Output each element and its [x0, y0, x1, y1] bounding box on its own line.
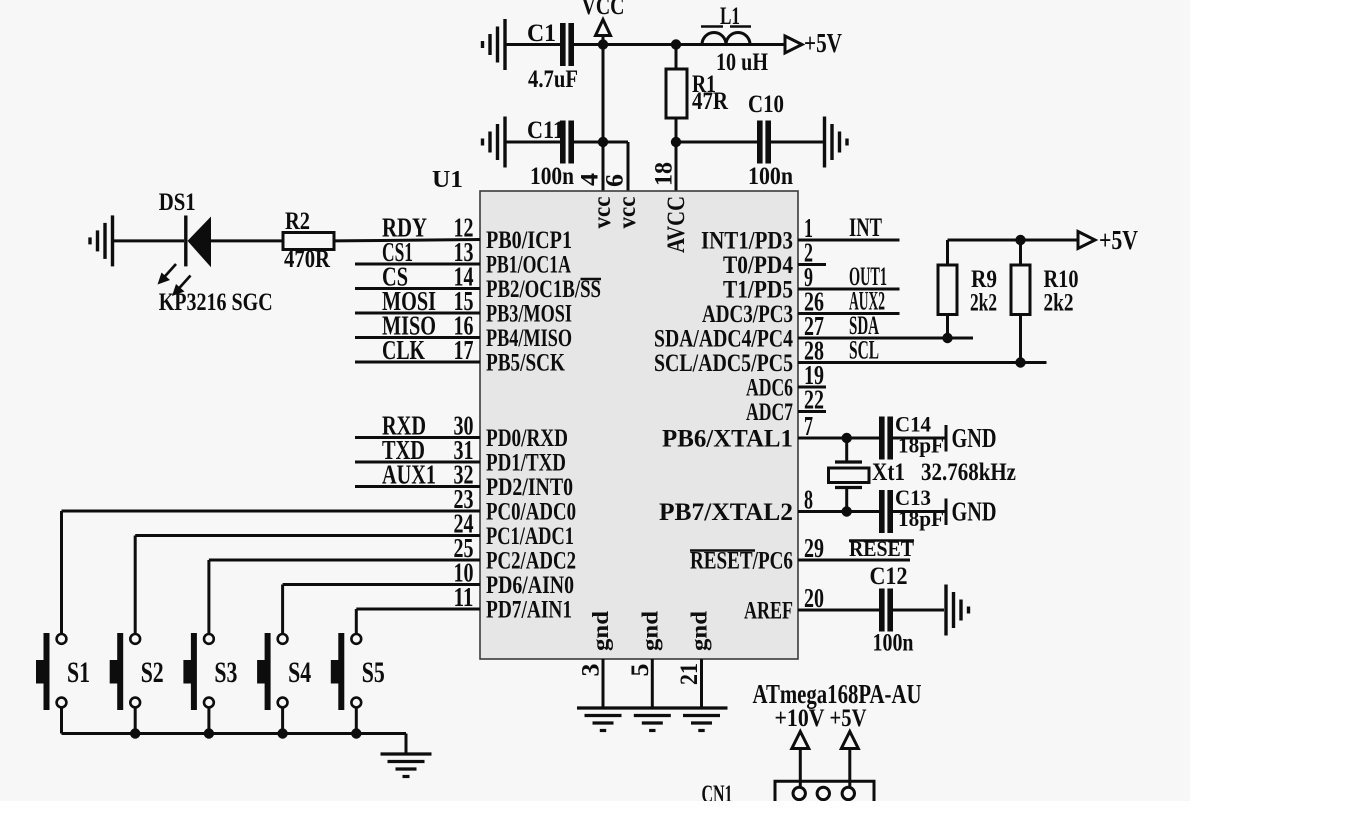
svg-text:PD2/INT0: PD2/INT0 [486, 474, 573, 501]
svg-text:100n: 100n [873, 630, 914, 657]
GND tick (C13) [945, 499, 948, 526]
wire DS1 to R2 [211, 239, 283, 242]
svg-text:5: 5 [627, 664, 654, 677]
svg-text:6: 6 [602, 174, 629, 187]
switch S1 [36, 511, 90, 734]
svg-text:PC2/ADC2: PC2/ADC2 [486, 548, 576, 575]
pin 30 PD0/RXD (left) [355, 411, 568, 453]
ground (C1 left) [483, 19, 506, 70]
svg-text:INT1/PD3: INT1/PD3 [701, 228, 793, 255]
capacitor C10 [757, 121, 771, 164]
inductor L1 [701, 3, 751, 45]
pin 24 PC1/ADC1 (left) [135, 509, 574, 551]
crystal Xt1 [829, 438, 870, 512]
svg-text:PC1/ADC1: PC1/ADC1 [486, 523, 574, 550]
svg-text:7: 7 [804, 411, 813, 441]
switch S3 [183, 560, 237, 734]
wire +10V to CN1 [799, 749, 802, 788]
svg-text:PD1/TXD: PD1/TXD [486, 450, 566, 477]
wire C14 to GND tick [893, 437, 946, 440]
switch S4 [257, 585, 311, 734]
pin 28 SCL/ADC5/PC5 (right) [654, 336, 1047, 378]
pin 14 PB2/OC1B/SS (left) [355, 262, 601, 304]
switch S5 [331, 609, 385, 734]
svg-text:10 uH: 10 uH [716, 49, 768, 76]
connector CN1 [775, 781, 874, 817]
resistor R9 [938, 240, 997, 338]
svg-text:S2: S2 [141, 656, 164, 689]
pin 1 INT1/PD3 (right) [701, 213, 900, 255]
svg-text:PB1/OC1A: PB1/OC1A [486, 252, 571, 279]
svg-text:21: 21 [676, 663, 703, 685]
svg-text:ADC3/PC3: ADC3/PC3 [702, 301, 793, 328]
node junction XTAL2/C13 [842, 506, 852, 516]
wire ground to C11 [505, 141, 560, 144]
svg-text:C10: C10 [748, 91, 784, 118]
wire vcc vertical pin 6 [627, 142, 630, 191]
capacitor C1 [560, 23, 574, 66]
svg-text:vcc: vcc [614, 197, 641, 229]
svg-text:gnd: gnd [588, 611, 613, 651]
capacitor C11 [560, 121, 574, 164]
pin 3 gnd (bottom) [578, 611, 614, 708]
wire C1 to L1/+5V rail [573, 43, 785, 46]
ground (C10 right) [825, 117, 848, 168]
pin 32 PD2/INT0 (left) [355, 460, 573, 502]
svg-text:PB5/SCK: PB5/SCK [486, 350, 565, 377]
node junction bus/S [130, 728, 140, 738]
canvas clip (bitmap edge) [0, 801, 1366, 817]
pin 6 vcc (top) [602, 174, 642, 229]
svg-text:C11: C11 [527, 117, 564, 144]
svg-text:GND: GND [952, 423, 997, 453]
capacitor C12 [879, 589, 893, 632]
wire C13 to GND tick [893, 510, 946, 513]
resistor R10 [1011, 240, 1079, 363]
node junction AVCC branch [671, 39, 681, 49]
pin 17 PB5/SCK (left) [355, 335, 565, 377]
svg-text:11: 11 [454, 582, 474, 612]
svg-text:S4: S4 [288, 656, 311, 689]
svg-text:100n: 100n [530, 163, 574, 190]
wire R2 to pin 12 [334, 240, 480, 241]
wire C11 to vcc pins [573, 141, 628, 144]
svg-text:47R: 47R [692, 88, 729, 115]
pin 2 T0/PD4 (right) [723, 238, 826, 280]
pin 18 AVCC (top) [651, 162, 691, 253]
svg-text:PB0/ICP1: PB0/ICP1 [486, 227, 572, 254]
LED DS1 [159, 189, 211, 267]
svg-text:17: 17 [454, 335, 474, 365]
node junction bus/S [351, 728, 361, 738]
pin 27 SDA/ADC4/PC4 (right) [654, 311, 973, 353]
svg-text:100n: 100n [748, 163, 793, 190]
pin 4 vcc (top) [577, 172, 617, 228]
power arrow +5V (right) [1078, 232, 1095, 249]
pin 5 gnd (bottom) [627, 611, 663, 708]
wire C12 to ground [893, 609, 944, 612]
svg-text:PD7/AIN1: PD7/AIN1 [486, 597, 572, 624]
svg-text:PB4/MISO: PB4/MISO [486, 325, 572, 352]
switch S2 [110, 536, 164, 734]
wire ground to DS1 [113, 239, 185, 242]
pin 12 PB0/ICP1 (left) [382, 213, 572, 255]
node junction bus/S [277, 728, 287, 738]
node junction SDA/R9 [942, 333, 952, 343]
pin 21 gnd (bottom) [676, 611, 712, 708]
power arrow +5V (CN1) [841, 732, 858, 749]
svg-text:CLK: CLK [382, 335, 425, 365]
svg-text:AVCC: AVCC [663, 196, 690, 253]
resistor R2 [283, 208, 334, 273]
LED arrows (emission) [158, 264, 191, 296]
pin 25 PC2/ADC2 (left) [209, 533, 576, 575]
power symbol VCC [582, 0, 625, 45]
node junction R10/+5V rail [1015, 235, 1025, 245]
GND tick (C14) [945, 425, 948, 452]
power arrow +10V [792, 732, 809, 749]
node junction VCC/pin4 [598, 39, 608, 49]
wire to C10 [676, 141, 757, 144]
svg-text:SCL/ADC5/PC5: SCL/ADC5/PC5 [654, 350, 793, 377]
IC U1 ATmega168PA body [480, 191, 798, 659]
pin 31 PD1/TXD (left) [355, 435, 566, 477]
svg-text:PD0/RXD: PD0/RXD [486, 425, 568, 452]
wire bus to ground [405, 734, 408, 755]
svg-text:KP3216 SGC: KP3216 SGC [159, 289, 273, 316]
svg-text:SDA/ADC4/PC4: SDA/ADC4/PC4 [654, 326, 793, 353]
svg-text:VCC: VCC [582, 0, 625, 20]
svg-text:S3: S3 [214, 656, 237, 689]
node junction AVCC/C10 [671, 137, 681, 147]
ground (switch bus) [381, 754, 432, 777]
wire C10 to ground [771, 141, 824, 144]
pin 20 AREF (right) [744, 583, 880, 625]
svg-text:DS1: DS1 [159, 189, 196, 216]
svg-text:GND: GND [952, 497, 997, 527]
svg-text:AREF: AREF [744, 598, 793, 625]
svg-text:S1: S1 [67, 656, 90, 689]
svg-text:32.768kHz: 32.768kHz [921, 459, 1016, 486]
pin 13 PB1/OC1A (left) [355, 237, 571, 279]
svg-text:C12: C12 [870, 563, 908, 590]
svg-text:29: 29 [804, 533, 824, 563]
node junction XTAL1/C14 [842, 433, 852, 443]
svg-text:8: 8 [804, 485, 813, 515]
svg-text:3: 3 [578, 664, 605, 677]
power arrow +5V (top) [785, 36, 802, 53]
svg-text:INT: INT [849, 213, 882, 242]
svg-text:gnd: gnd [687, 611, 712, 651]
svg-text:+5V: +5V [1099, 225, 1138, 255]
svg-text:4.7uF: 4.7uF [528, 66, 578, 93]
wire ground to C1 [505, 43, 560, 46]
svg-text:C1: C1 [527, 20, 556, 47]
svg-text:PB7/XTAL2: PB7/XTAL2 [659, 499, 793, 526]
node junction vcc/C11 [598, 137, 608, 147]
pin 29 RESET/PC6 (right) [690, 533, 914, 575]
pin 8 PB7/XTAL2 (right) [659, 485, 880, 527]
svg-text:22: 22 [804, 385, 824, 415]
capacitor C13 [879, 490, 893, 533]
ground (C11 left) [483, 117, 506, 168]
svg-text:Xt1: Xt1 [872, 459, 905, 486]
ground (DS1 left) [90, 215, 113, 266]
svg-text:T0/PD4: T0/PD4 [723, 252, 793, 279]
svg-text:U1: U1 [432, 167, 463, 193]
svg-text:18pF: 18pF [898, 506, 944, 531]
svg-text:PB6/XTAL1: PB6/XTAL1 [662, 426, 793, 453]
resistor R1 [666, 45, 729, 143]
svg-text:PC0/ADC0: PC0/ADC0 [486, 499, 576, 526]
svg-text:20: 20 [804, 583, 824, 613]
svg-text:SCL: SCL [849, 336, 879, 365]
svg-text:+5V: +5V [804, 28, 842, 58]
pin 11 PD7/AIN1 (left) [356, 582, 572, 624]
capacitor C14 [879, 417, 893, 460]
wire vcc vertical pin 4 [602, 45, 605, 192]
svg-text:2k2: 2k2 [970, 290, 997, 317]
pin 15 PB3/MOSI (left) [355, 286, 572, 328]
ground (C12 right) [946, 585, 969, 636]
svg-text:R2: R2 [285, 208, 310, 235]
svg-text:18: 18 [651, 162, 678, 186]
svg-text:ADC6: ADC6 [746, 375, 793, 402]
svg-text:PB3/MOSI: PB3/MOSI [486, 301, 572, 328]
svg-text:4: 4 [577, 172, 604, 186]
wire +5V to CN1 [848, 749, 851, 788]
wire switch ground bus [62, 732, 407, 735]
pin 9 T1/PD5 (right) [723, 262, 900, 304]
ground (IC gnd pins) [577, 708, 728, 731]
node junction bus/S [204, 728, 214, 738]
pin 26 ADC3/PC3 (right) [702, 287, 900, 329]
svg-text:+5V: +5V [830, 705, 867, 732]
svg-text:PD6/AIN0: PD6/AIN0 [486, 572, 574, 599]
pin 7 PB6/XTAL1 (right) [662, 411, 880, 453]
svg-text:L1: L1 [720, 3, 740, 30]
wire AVCC vertical pin 18 [675, 142, 678, 191]
svg-text:T1/PD5: T1/PD5 [723, 277, 793, 304]
svg-text:+10V: +10V [775, 705, 825, 732]
node junction SCL/R10 [1015, 357, 1025, 367]
pin 19 ADC6 (right) [746, 360, 826, 402]
svg-text:gnd: gnd [637, 611, 662, 651]
svg-text:ADC7: ADC7 [746, 399, 793, 426]
svg-text:2k2: 2k2 [1044, 290, 1074, 317]
pin 22 ADC7 (right) [746, 385, 826, 427]
pin 10 PD6/AIN0 (left) [283, 558, 574, 600]
svg-text:vcc: vcc [589, 197, 616, 229]
svg-text:AUX1: AUX1 [382, 460, 436, 490]
pin 16 PB4/MISO (left) [355, 311, 572, 353]
svg-text:S5: S5 [362, 656, 385, 689]
svg-text:470R: 470R [284, 246, 331, 273]
wire +5V rail (R9/R10) [948, 239, 1079, 242]
svg-text:18pF: 18pF [898, 433, 944, 458]
pin 23 PC0/ADC0 (left) [62, 484, 577, 526]
